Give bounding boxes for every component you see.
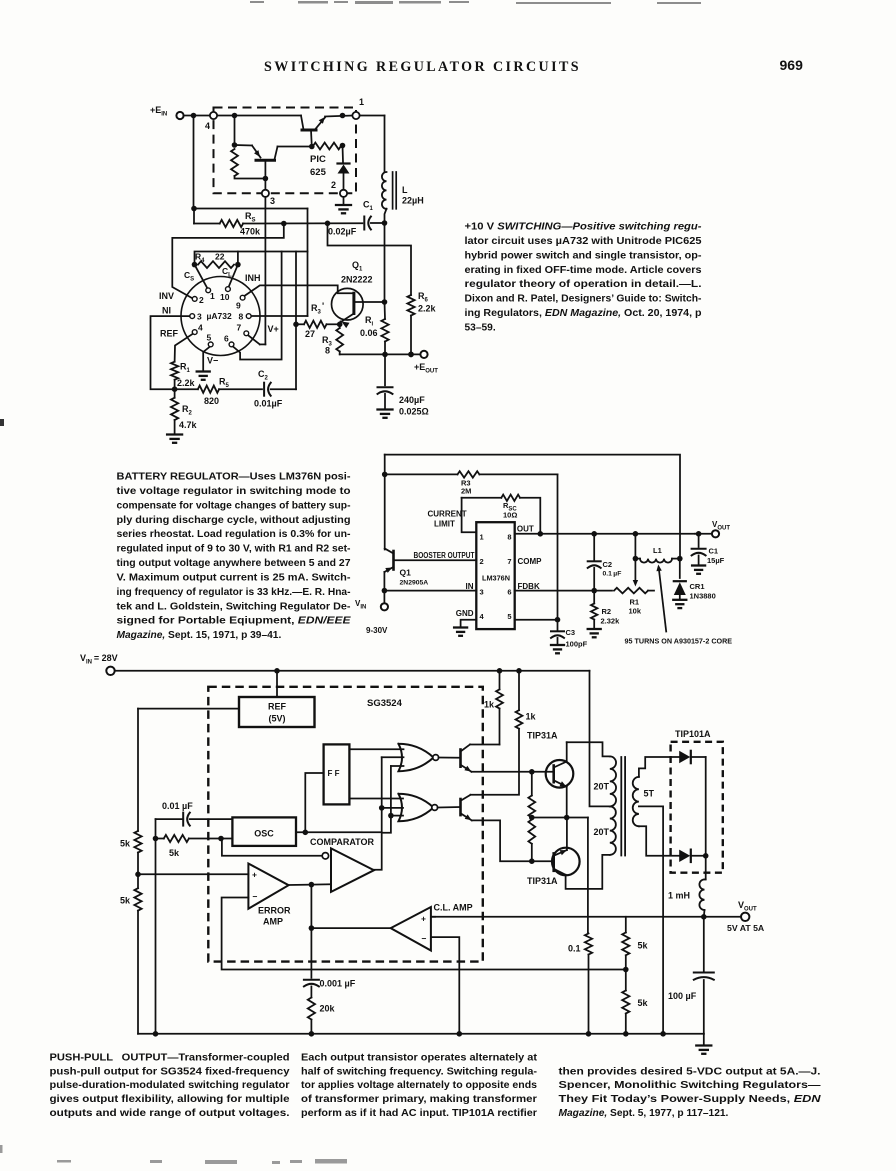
svg-text:820: 820 <box>204 396 219 406</box>
svg-text:+: + <box>252 870 257 880</box>
callout 95 turns on core <box>659 568 667 632</box>
wire pin6 run <box>233 252 282 360</box>
wire secondary bottom to D2 <box>639 826 679 856</box>
ground for LM376N <box>454 626 467 628</box>
svg-text:1 mH: 1 mH <box>668 891 690 901</box>
TIP101A dashed box <box>671 742 723 873</box>
svg-text:Q1: Q1 <box>400 568 412 578</box>
ground below C1 <box>692 564 705 566</box>
capacitor C2 0.1uF <box>593 534 595 560</box>
pin 4 of PIC625 <box>210 112 217 119</box>
resistor Ri 0.06 <box>381 319 388 342</box>
wire switch node down to Q1 collector and Ri <box>384 223 386 302</box>
svg-text:1: 1 <box>210 291 215 301</box>
pin 6 of uA732 <box>229 342 234 347</box>
wire REF pin4 to R1 top <box>175 334 193 362</box>
wire OUT row <box>515 533 695 535</box>
svg-text:625: 625 <box>310 167 327 178</box>
svg-text:2: 2 <box>480 557 484 566</box>
wire Cs lead to pin1 <box>195 265 208 289</box>
FF box <box>324 744 350 804</box>
PIC625 hybrid dashed box <box>214 108 357 194</box>
svg-text:pulse-duration-modulated switc: pulse-duration-modulated switching regul… <box>50 1080 290 1091</box>
resistor R3 2M <box>385 473 458 475</box>
wire pin2 to ground <box>343 197 345 204</box>
resistor 1k driver B load <box>516 710 523 729</box>
svg-text:−: − <box>422 934 427 944</box>
wire upper horizontal run y208 <box>194 208 308 210</box>
resistor R2 2.32k <box>593 591 595 604</box>
svg-text:1: 1 <box>359 97 364 107</box>
svg-text:1k: 1k <box>484 700 495 710</box>
wire OUT to L1 branch <box>634 534 636 559</box>
wire error amp minus feedback <box>222 898 626 970</box>
svg-text:compensate for voltage changes: compensate for voltage changes of batter… <box>117 500 351 511</box>
SG3524 dashed box <box>208 687 483 962</box>
svg-text:5V AT 5A: 5V AT 5A <box>727 923 765 933</box>
transistor driver A <box>439 757 461 759</box>
svg-text:SG3524: SG3524 <box>367 698 403 709</box>
svg-text:series rheostat. Load regulati: series rheostat. Load regulation is 0.3%… <box>117 529 351 540</box>
svg-text:F F: F F <box>328 769 340 778</box>
svg-text:CURRENT: CURRENT <box>428 510 467 519</box>
ground below 240uF <box>378 408 393 410</box>
svg-text:8: 8 <box>325 346 330 356</box>
svg-text:PIC: PIC <box>310 154 326 165</box>
svg-text:GND: GND <box>456 609 474 618</box>
wire CL amp minus input <box>431 937 459 1034</box>
svg-text:5k: 5k <box>120 896 131 906</box>
svg-text:ply during discharge cycle, wi: ply during discharge cycle, without adju… <box>117 515 351 526</box>
svg-text:95 TURNS ON A930157-2 CORE: 95 TURNS ON A930157-2 CORE <box>625 637 733 646</box>
wire REF output to divider <box>138 708 239 710</box>
svg-text:half of switching frequency. S: half of switching frequency. Switching r… <box>301 1066 537 1077</box>
svg-text:9-30V: 9-30V <box>366 626 388 635</box>
transformer secondary 5T <box>633 777 639 826</box>
svg-text:0.001 µF: 0.001 µF <box>320 979 356 989</box>
svg-text:ing Regulators, EDN Magazine,: ing Regulators, EDN Magazine, Oct. 20, 1… <box>465 308 702 319</box>
wire secondary center tap <box>639 806 663 1033</box>
wire output row <box>340 353 421 355</box>
svg-text:20k: 20k <box>320 1004 336 1014</box>
svg-text:COMP: COMP <box>518 557 543 566</box>
capacitor C1 15uF <box>698 534 700 547</box>
ground below PIC pin 2 <box>336 204 351 206</box>
wire pin5 to V- ground <box>203 347 209 370</box>
junction dots on +Ein rail <box>191 113 197 119</box>
resistor 5k timing <box>153 836 159 842</box>
wire CL amp output <box>310 885 312 929</box>
svg-text:2M: 2M <box>461 487 471 496</box>
svg-text:100 µF: 100 µF <box>668 991 697 1001</box>
wire error amp plus input <box>138 873 248 875</box>
wire rectifier output <box>705 757 707 856</box>
capacitor C1 0.02uF <box>363 217 365 230</box>
svg-text:0.06: 0.06 <box>360 328 378 338</box>
svg-text:1: 1 <box>480 533 484 542</box>
svg-text:V+: V+ <box>268 324 279 334</box>
resistor R2 4.7k <box>174 389 176 398</box>
wire Vin top rail <box>115 670 590 672</box>
wire FF output B to NOR B <box>349 798 403 800</box>
diode D2 of TIP101A <box>679 850 690 862</box>
pin 9 of uA732 INH <box>240 295 245 300</box>
transistor PIC internal QA (npn pass) <box>301 116 304 130</box>
wire secondary top to D1 <box>639 757 679 777</box>
capacitor 100uF output <box>703 917 705 971</box>
svg-text:15µF: 15µF <box>707 556 725 565</box>
svg-text:tive voltage regulator in swit: tive voltage regulator in switching mode… <box>117 486 351 497</box>
svg-text:Spencer, Monolithic Switching: Spencer, Monolithic Switching Regulators… <box>559 1080 822 1091</box>
transistor TIP31A upper <box>546 760 574 788</box>
svg-text:They Fit Today’s Power-Supply: They Fit Today’s Power-Supply Needs, EDN <box>559 1094 822 1105</box>
svg-text:6: 6 <box>224 334 229 344</box>
gate NOR A <box>399 744 434 771</box>
svg-text:27: 27 <box>305 329 315 339</box>
resistor Rsc 10ohm current limit loop <box>462 498 477 532</box>
pin 2 of PIC625 <box>340 190 347 197</box>
svg-text:regulator theory of operation: regulator theory of operation in detail.… <box>465 279 702 290</box>
wire emitter sense row <box>532 817 588 819</box>
wire error amp output <box>289 884 312 886</box>
transformer core <box>620 757 622 856</box>
resistor PIC internal RB <box>313 143 341 150</box>
svg-text:100pF: 100pF <box>566 640 588 649</box>
wire driver A emitter to TIP31A-1 base <box>472 771 553 773</box>
wire GND pin4 <box>461 620 477 627</box>
wire R3 to pin5 <box>557 474 559 619</box>
diode CR1 1N3880 <box>679 559 681 578</box>
potentiometer R1 10k <box>614 588 648 594</box>
svg-text:1k: 1k <box>526 712 537 722</box>
wire pin3 drive line down to uA732 pin7 region <box>264 197 266 345</box>
wire INH pin9 to Q1 base <box>245 285 354 296</box>
svg-text:2.2k: 2.2k <box>177 378 196 388</box>
scan artifact bottom edge <box>0 1145 347 1164</box>
svg-text:4: 4 <box>205 121 210 131</box>
ground below R2 <box>167 433 182 435</box>
inductor L1 <box>635 558 640 560</box>
resistor R1 2.2k <box>171 362 178 380</box>
transistor TIP31A lower <box>552 848 580 876</box>
svg-text:hybrid power switch and single: hybrid power switch and single transisto… <box>465 250 702 261</box>
svg-text:7: 7 <box>237 323 242 333</box>
wire top loop of battery regulator <box>385 455 680 559</box>
svg-text:outputs and wide range of outp: outputs and wide range of output voltage… <box>50 1108 290 1119</box>
svg-text:Each output transistor operate: Each output transistor operates alternat… <box>301 1053 538 1064</box>
svg-text:TIP31A: TIP31A <box>527 731 558 741</box>
pin 5 of uA732 <box>208 342 213 347</box>
svg-text:0.1 µF: 0.1 µF <box>603 571 622 578</box>
svg-text:erating in fixed OFF-time mode: erating in fixed OFF-time mode. Article … <box>465 265 702 276</box>
svg-text:9: 9 <box>236 301 241 311</box>
amplifier CL amp <box>391 907 431 951</box>
svg-text:2.2k: 2.2k <box>418 304 437 314</box>
svg-text:2N2222: 2N2222 <box>341 275 373 285</box>
resistor Rs 470k <box>194 223 220 225</box>
wire PIC internal left branch <box>234 116 236 146</box>
wire branch from rail down at x193 <box>193 116 195 209</box>
resistor 5k lower left <box>137 874 139 888</box>
svg-text:(5V): (5V) <box>268 714 285 724</box>
pin 1 of PIC625 <box>352 112 359 119</box>
svg-text:lator circuit uses µA732 with: lator circuit uses µA732 with Unitrode P… <box>465 236 702 247</box>
scan artifact top edge <box>250 1 701 4</box>
svg-text:OSC: OSC <box>254 829 274 839</box>
svg-text:R2: R2 <box>602 607 612 616</box>
svg-text:COMPARATOR: COMPARATOR <box>310 837 374 847</box>
wire bottom ground rail <box>138 1033 704 1035</box>
svg-text:INH: INH <box>245 273 261 283</box>
svg-text:969: 969 <box>780 57 804 73</box>
svg-text:then provides desired 5-VDC ou: then provides desired 5-VDC output at 5A… <box>559 1066 821 1077</box>
svg-text:REF: REF <box>160 329 179 339</box>
wire osc blanking riser <box>381 757 383 832</box>
ground below C3 <box>551 644 564 646</box>
svg-text:CR1: CR1 <box>690 582 705 591</box>
svg-text:OUT: OUT <box>517 525 534 534</box>
wire IN row <box>382 588 388 594</box>
svg-text:FDBK: FDBK <box>518 582 540 591</box>
svg-text:AMP: AMP <box>263 917 283 927</box>
svg-text:−: − <box>253 892 258 902</box>
svg-text:6: 6 <box>507 588 511 597</box>
wire osc output row <box>296 831 382 833</box>
svg-text:ERROR: ERROR <box>258 906 291 916</box>
svg-text:': ' <box>322 301 324 311</box>
node +Eout terminal <box>420 351 427 358</box>
wire osc to FF input <box>305 773 323 832</box>
transistor PIC internal QB (pnp) <box>235 144 253 147</box>
svg-text:20T: 20T <box>594 782 610 792</box>
transformer primary 20T lower <box>610 806 616 855</box>
wire TIP31A-1 collector to primary top <box>567 742 610 756</box>
wire timing node to ground rail <box>155 839 157 1034</box>
resistor PIC internal RA <box>231 149 238 176</box>
svg-text:BATTERY REGULATOR—Uses LM376N: BATTERY REGULATOR—Uses LM376N posi- <box>117 472 351 483</box>
pin 7 of uA732 <box>244 331 249 336</box>
OSC box <box>232 817 296 846</box>
resistor 5k feedback lower <box>625 970 627 991</box>
svg-text:3: 3 <box>480 588 484 597</box>
svg-text:TIP31A: TIP31A <box>527 876 558 886</box>
svg-text:5: 5 <box>207 333 212 343</box>
resistor R5 820 <box>198 386 219 393</box>
svg-text:LIMIT: LIMIT <box>434 520 455 529</box>
svg-text:53–59.: 53–59. <box>465 323 496 334</box>
resistor R3prime 27 <box>337 322 343 328</box>
capacitor 0.001uF compensation <box>310 928 312 978</box>
resistor base bleeder upper <box>531 772 533 796</box>
svg-text:5: 5 <box>507 612 511 621</box>
ground below CR1 <box>673 599 686 601</box>
svg-text:10Ω: 10Ω <box>503 511 517 520</box>
wire CL amp plus input to Vout row <box>431 916 435 918</box>
wire NI pin3 to R1 bottom <box>151 316 190 389</box>
wire comparator output riser <box>374 766 391 870</box>
svg-text:3: 3 <box>270 196 275 206</box>
outer feedback box wire to INV <box>172 224 283 299</box>
wire QB collector to RB <box>278 146 312 148</box>
svg-text:R1: R1 <box>630 598 640 607</box>
svg-text:C.L. AMP: C.L. AMP <box>434 903 473 913</box>
svg-text:C3: C3 <box>566 628 576 637</box>
resistor R4 22 <box>198 261 234 268</box>
svg-text:5k: 5k <box>169 848 180 858</box>
svg-text:TIP101A: TIP101A <box>675 729 711 739</box>
svg-text:0.01µF: 0.01µF <box>254 399 283 409</box>
diode PIC internal D <box>342 146 345 163</box>
svg-text:240µF: 240µF <box>399 395 425 405</box>
capacitor C3 100pF <box>557 620 559 631</box>
svg-text:4: 4 <box>198 323 203 333</box>
pin 3 of uA732 NI <box>190 314 195 319</box>
svg-text:470k: 470k <box>240 227 261 237</box>
svg-text:perform as if it had AC input.: perform as if it had AC input. TIP101A r… <box>301 1108 537 1119</box>
pin 10 of uA732 <box>226 287 231 292</box>
svg-text:10: 10 <box>220 292 230 302</box>
svg-text:tor applies voltage alternatel: tor applies voltage alternately to oppos… <box>301 1080 537 1091</box>
wire v+ feed down x307 to pin8 <box>307 209 309 317</box>
svg-text:2N2905A: 2N2905A <box>400 580 429 587</box>
svg-text:V. Maximum output current is 2: V. Maximum output current is 25 mA. Swit… <box>117 572 351 583</box>
svg-text:LM376N: LM376N <box>482 574 510 583</box>
resistor 0.1 current sense <box>585 934 592 955</box>
wire +Ein rail <box>184 115 210 117</box>
capacitor C2 0.01uF <box>263 383 265 396</box>
svg-text:Magazine, Sept. 15, 1971, p 39: Magazine, Sept. 15, 1971, p 39–41. <box>117 630 282 641</box>
wire C2 up the compensation line <box>295 252 297 390</box>
transformer primary 20T upper <box>610 756 616 806</box>
wire down to Rs row <box>193 209 195 224</box>
scan artifact left edge mark <box>0 419 4 426</box>
svg-text:0.025Ω: 0.025Ω <box>399 407 429 417</box>
amplifier comparator <box>331 848 374 892</box>
pin 4 of uA732 REF <box>192 330 197 335</box>
svg-text:4.7k: 4.7k <box>179 420 198 430</box>
svg-text:Magazine, Sept. 5, 1977, p 117: Magazine, Sept. 5, 1977, p 117–121. <box>559 1108 729 1119</box>
inductor L 22uH <box>382 172 387 209</box>
ground below R2 <box>588 628 601 630</box>
svg-text:1N3880: 1N3880 <box>690 592 716 601</box>
svg-text:ting output voltage anywhere b: ting output voltage anywhere between 5 a… <box>117 558 351 569</box>
svg-text:BOOSTER OUTPUT: BOOSTER OUTPUT <box>414 551 475 560</box>
svg-text:3: 3 <box>197 312 202 322</box>
svg-text:µA732: µA732 <box>207 311 232 321</box>
wire Vin rail to primary center tap <box>590 671 610 807</box>
pin 8 of uA732 <box>246 314 251 319</box>
inner timing box wires <box>195 252 308 265</box>
svg-text:gives output flexibility, allo: gives output flexibility, allowing for m… <box>50 1094 290 1105</box>
node Vout terminal <box>712 530 719 537</box>
svg-text:SWITCHING REGULATOR CIRCUITS: SWITCHING REGULATOR CIRCUITS <box>264 59 581 75</box>
svg-text:10k: 10k <box>629 607 642 616</box>
node Vout terminal <box>741 913 749 921</box>
ground below output cap <box>703 1034 705 1044</box>
svg-text:L: L <box>402 185 408 195</box>
amplifier error amp <box>248 864 288 909</box>
transistor driver B <box>438 806 461 809</box>
svg-text:5k: 5k <box>638 941 649 951</box>
svg-text:REF: REF <box>268 702 287 712</box>
diode D1 of TIP101A <box>679 751 690 763</box>
svg-text:5T: 5T <box>644 789 655 799</box>
wire Vout row <box>431 916 741 918</box>
ground V- <box>197 370 210 372</box>
comparator control input <box>311 883 331 885</box>
pin 1 of uA732 <box>206 288 211 293</box>
svg-text:22µH: 22µH <box>402 196 424 206</box>
resistor R3 8 <box>339 324 341 328</box>
wire C1 node to R6 top <box>328 223 412 295</box>
wire driver B emitter to TIP31A-2 base <box>472 820 532 861</box>
svg-text:Dixon and R. Patel, Designers’: Dixon and R. Patel, Designers’ Guide to:… <box>465 294 702 305</box>
comparator ramp input from osc node <box>221 839 322 856</box>
svg-text:0.1: 0.1 <box>568 944 581 954</box>
uA732 can outline <box>181 277 260 356</box>
svg-text:C1: C1 <box>709 547 719 556</box>
svg-text:0.01 µF: 0.01 µF <box>162 801 193 811</box>
svg-text:L1: L1 <box>653 546 662 555</box>
svg-text:8: 8 <box>239 311 244 321</box>
svg-text:0.02µF: 0.02µF <box>328 227 357 237</box>
inductor 1mH <box>699 879 704 910</box>
svg-text:ing frequency of regulator is: ing frequency of regulator is 33 kHz.—E.… <box>117 587 351 598</box>
svg-text:V−: V− <box>207 356 218 366</box>
wire FDBK row <box>515 590 612 592</box>
REF 5V box <box>276 671 278 697</box>
svg-text:+10 V SWITCHING—Positive switc: +10 V SWITCHING—Positive switching regu- <box>465 221 703 232</box>
gate NOR B <box>399 794 434 821</box>
resistor R6 2.2k <box>407 295 414 316</box>
svg-text:push-pull output for SG3524 fi: push-pull output for SG3524 fixed-freque… <box>50 1066 290 1077</box>
pin 3 of PIC625 <box>262 190 269 197</box>
svg-text:7: 7 <box>507 557 511 566</box>
svg-text:INV: INV <box>159 291 174 301</box>
wire FF output A to NOR A <box>349 748 403 750</box>
node Vin terminal 9-30V <box>383 591 385 604</box>
transistor Q1 2N2222 <box>332 288 364 320</box>
svg-text:tek and L. Goldstein, Switchin: tek and L. Goldstein, Switching Regulato… <box>117 601 351 612</box>
resistor 5k upper left <box>134 831 141 853</box>
capacitor 240uF output <box>384 354 386 385</box>
svg-text:regulated input of 9 to 30 V,: regulated input of 9 to 30 V, with R1 an… <box>117 544 351 555</box>
svg-text:2.32k: 2.32k <box>601 617 621 626</box>
svg-text:PUSH-PULL OUTPUT—Transformer-: PUSH-PULL OUTPUT—Transformer-coupled <box>50 1053 290 1064</box>
wire Cl lead to pin10 <box>229 265 238 287</box>
svg-text:C2: C2 <box>603 560 613 569</box>
resistor 1k driver A load <box>499 709 501 745</box>
svg-text:IN: IN <box>466 582 474 591</box>
svg-text:20T: 20T <box>594 827 610 837</box>
svg-text:5k: 5k <box>120 839 131 849</box>
svg-text:of transformer primary, making: of transformer primary, making transform… <box>301 1094 537 1105</box>
svg-text:22: 22 <box>215 252 225 262</box>
svg-text:2: 2 <box>331 180 336 190</box>
resistor base bleeder lower <box>528 820 535 844</box>
svg-text:+: + <box>421 914 426 924</box>
svg-text:2: 2 <box>199 295 204 305</box>
wire pin5 row <box>515 619 558 621</box>
resistor 5k feedback upper <box>625 917 627 933</box>
svg-text:signed for Portable Eqiupment,: signed for Portable Eqiupment, EDN/EEE <box>117 616 352 627</box>
transistor Q1 2N2905A <box>392 551 395 570</box>
capacitor 0.01uF timing <box>156 818 184 820</box>
svg-text:8: 8 <box>507 533 511 542</box>
resistor 20k compensation <box>308 998 315 1020</box>
IC LM376N body <box>476 522 514 629</box>
pin 2 of uA732 INV <box>192 297 197 302</box>
